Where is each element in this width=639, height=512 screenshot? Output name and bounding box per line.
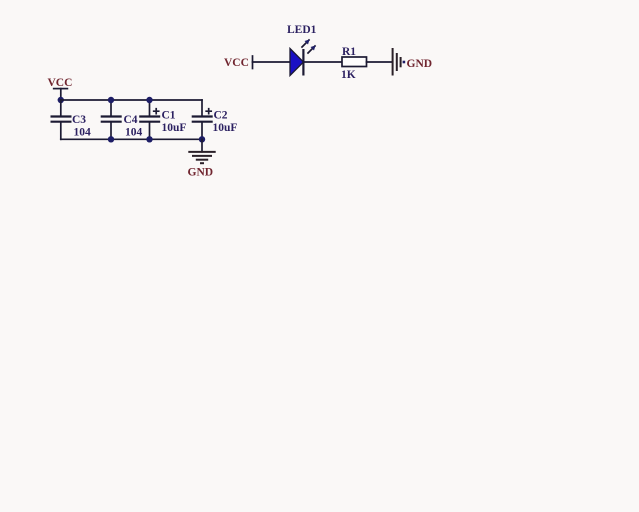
capacitor C4 104 [101,100,143,139]
svg-text:GND: GND [188,167,214,179]
wire VCC to LED1 [253,61,291,63]
svg-text:VCC: VCC [224,57,249,69]
capacitor C1 10uF polarized [139,100,186,139]
wire bottom bus [61,138,202,140]
svg-text:VCC: VCC [48,77,73,89]
junction bottom bus at C4 [108,136,114,142]
junction top bus at C4 [108,97,114,103]
svg-text:104: 104 [74,127,92,139]
svg-text:10uF: 10uF [213,122,238,134]
power port GND (bar style, LED row) [393,48,432,76]
svg-text:C3: C3 [72,114,86,126]
junction VCC stem / top bus [58,97,64,103]
svg-text:1K: 1K [341,69,356,81]
junction bottom bus at C2 [199,136,205,142]
wire top bus [61,99,202,101]
resistor R1 1K [341,46,367,81]
svg-text:C1: C1 [162,110,176,122]
ground (earth) below C2 [188,139,216,178]
power port VCC (cap bank) [48,77,73,100]
capacitor C3 104 [51,100,92,139]
svg-text:C4: C4 [124,114,138,126]
wire R1 to GND [367,61,393,63]
svg-text:104: 104 [125,127,143,139]
wire LED1 to R1 [304,61,343,63]
svg-text:GND: GND [407,58,433,70]
capacitor C2 10uF polarized [192,100,238,139]
svg-text:C2: C2 [214,110,228,122]
junction top bus at C1 [146,97,152,103]
LED LED1 [287,24,317,76]
power port VCC (LED anode) [224,56,253,69]
svg-text:10uF: 10uF [162,122,187,134]
svg-text:LED1: LED1 [287,24,317,36]
junction bottom bus at C1 [146,136,152,142]
